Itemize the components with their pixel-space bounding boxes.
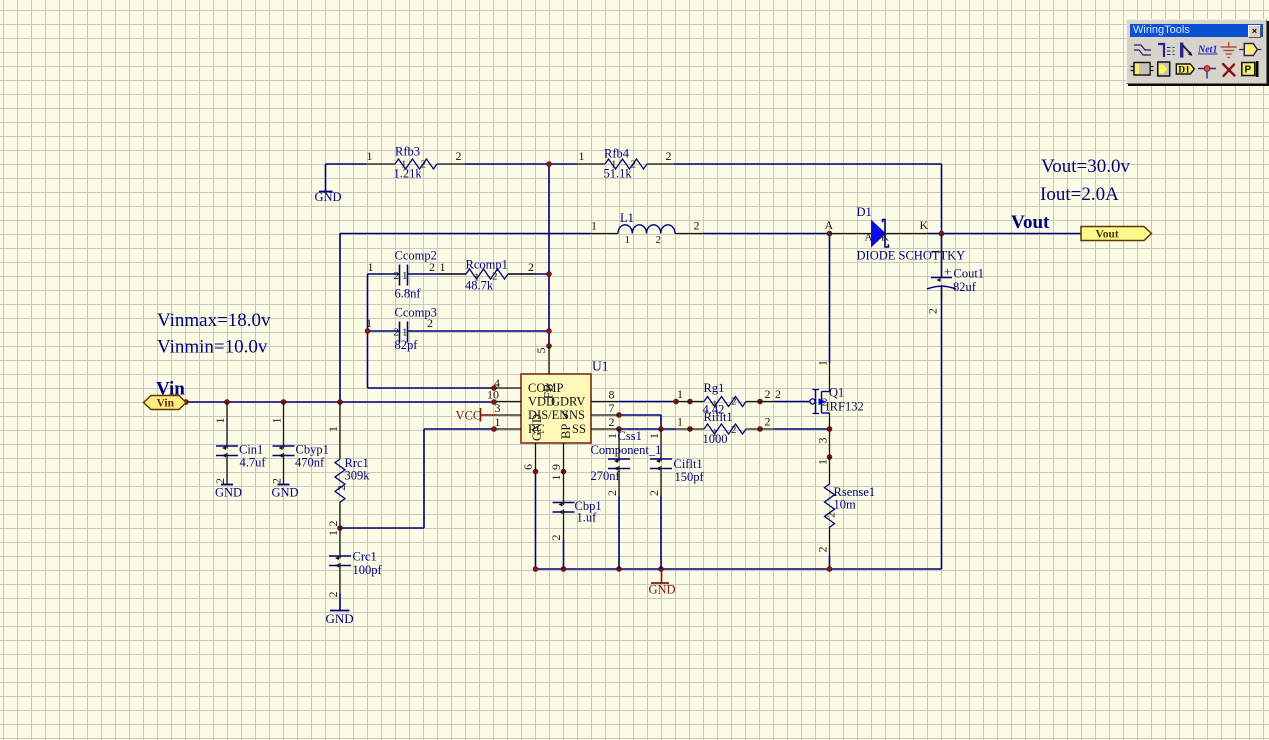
capacitor Crc1 <box>326 528 383 611</box>
wire Cout1 to rail <box>941 288 943 570</box>
node rail Css1 <box>617 567 622 572</box>
wire Rcomp1 to FB vertical <box>508 273 549 275</box>
svg-text:1: 1 <box>367 149 373 163</box>
svg-text:1: 1 <box>368 260 374 274</box>
node pin7 <box>617 413 622 418</box>
icon junction <box>1198 66 1216 79</box>
node Q1 source end <box>827 455 832 460</box>
svg-text:2: 2 <box>394 327 400 339</box>
wire right vertical feedback to K node <box>941 164 943 234</box>
svg-text:Ciflt1: Ciflt1 <box>674 457 703 471</box>
svg-text:2: 2 <box>326 521 340 527</box>
svg-text:DIODE SCHOTTKY: DIODE SCHOTTKY <box>857 249 966 263</box>
wire SW row left <box>340 233 590 235</box>
node COMP top <box>547 272 552 277</box>
svg-text:1: 1 <box>495 415 501 429</box>
svg-text:10: 10 <box>487 388 499 402</box>
wire bottom rail <box>536 568 942 570</box>
svg-text:2: 2 <box>765 415 771 429</box>
svg-text:Riflt1: Riflt1 <box>704 410 733 424</box>
ground Cbyp1 <box>272 485 299 500</box>
svg-text:K: K <box>881 232 889 244</box>
svg-text:150pf: 150pf <box>675 470 705 484</box>
svg-text:P: P <box>1245 65 1252 76</box>
svg-text:2: 2 <box>816 547 830 553</box>
ground Crc1 <box>326 611 354 627</box>
icon wire tool <box>1134 45 1151 55</box>
node pin6 end <box>533 469 538 474</box>
node Vin port <box>184 400 189 405</box>
node Ccomp3 left <box>365 329 370 334</box>
capacitor Cin1 <box>213 402 266 485</box>
svg-text:2: 2 <box>765 387 771 401</box>
wire Rfb4 to right corner <box>674 163 942 165</box>
svg-text:2: 2 <box>822 397 828 409</box>
svg-text:1: 1 <box>402 327 408 339</box>
svg-text:Vout: Vout <box>1096 229 1119 241</box>
diode D1 schottky <box>825 205 966 263</box>
svg-text:10m: 10m <box>834 498 857 512</box>
svg-text:6: 6 <box>521 464 535 470</box>
svg-text:1: 1 <box>326 426 340 432</box>
wire RC to pin1 <box>424 428 495 430</box>
icon PCB rule P <box>1242 61 1259 77</box>
svg-text:2: 2 <box>605 490 619 496</box>
svg-text:1: 1 <box>712 399 718 411</box>
wire pin8 to Rg1 <box>619 401 676 403</box>
svg-text:Vinmin=10.0v: Vinmin=10.0v <box>157 337 268 358</box>
svg-text:1: 1 <box>549 475 563 481</box>
wire L1 to A node <box>703 233 830 235</box>
icon power port ground <box>1221 42 1237 58</box>
node Rg1 pin2 <box>758 399 763 404</box>
toolbar icons <box>1127 38 1266 83</box>
svg-text:U1: U1 <box>592 359 609 374</box>
svg-text:2: 2 <box>731 396 737 408</box>
svg-text:4.7uf: 4.7uf <box>240 456 267 470</box>
node pin2 <box>617 427 622 432</box>
capacitor Css1 <box>591 429 662 569</box>
svg-text:2: 2 <box>528 260 534 274</box>
node rail Cbp1 <box>561 567 566 572</box>
svg-text:309k: 309k <box>345 469 371 483</box>
svg-text:SS: SS <box>572 422 586 436</box>
svg-text:470nf: 470nf <box>295 456 325 470</box>
wire Ccomp3 to FB vertical <box>408 330 550 332</box>
icon no-ERC cross <box>1223 64 1235 76</box>
svg-text:5: 5 <box>534 348 548 354</box>
svg-text:2: 2 <box>336 485 348 491</box>
svg-text:9: 9 <box>549 464 563 470</box>
icon sheet symbol <box>1131 63 1154 76</box>
svg-text:SNS: SNS <box>562 408 585 422</box>
node pin5 end <box>547 344 552 349</box>
wire K to Vout port <box>927 233 1081 235</box>
resistor Rrc1 <box>326 402 370 528</box>
svg-text:GND: GND <box>315 190 342 204</box>
IC U1 pin names <box>528 381 586 441</box>
transistor Q1 IRF132 <box>810 360 864 457</box>
IC U1 body <box>521 359 609 444</box>
ground top-left <box>315 164 342 204</box>
svg-text:1: 1 <box>816 360 830 366</box>
node SNS-SS tie <box>659 427 664 432</box>
node Cin1 top <box>225 400 230 405</box>
svg-text:3: 3 <box>816 438 830 444</box>
power port VCC <box>456 408 497 423</box>
inductor L1 <box>590 211 703 246</box>
node rail Rsense <box>827 567 832 572</box>
wire feedback top from GND to Rfb3 <box>326 163 367 165</box>
svg-text:1: 1 <box>625 234 631 246</box>
svg-text:Css1: Css1 <box>618 429 642 443</box>
node Q1 drain row <box>827 427 832 432</box>
svg-text:1: 1 <box>440 260 446 274</box>
icon bus entry <box>1180 43 1193 58</box>
icon bus tool <box>1158 44 1175 57</box>
ground Cin1 <box>215 485 242 500</box>
svg-text:Cbyp1: Cbyp1 <box>296 443 329 457</box>
svg-text:Net1: Net1 <box>1197 45 1217 56</box>
node Rifl1 pin1 <box>688 427 693 432</box>
IC U1 left pin stubs <box>496 388 521 429</box>
node Rg1 pin1 <box>688 399 693 404</box>
svg-text:2: 2 <box>429 260 435 274</box>
node A <box>827 231 832 236</box>
svg-text:1: 1 <box>647 433 661 439</box>
wire junction to Rfb4 <box>549 163 577 165</box>
wire left vertical Vin to SW <box>339 234 341 403</box>
wire pin6 down to rail <box>535 472 537 570</box>
svg-text:1: 1 <box>401 159 407 171</box>
svg-text:1: 1 <box>579 149 585 163</box>
svg-text:Crc1: Crc1 <box>353 550 377 564</box>
node pin10 <box>492 400 497 405</box>
svg-text:GDRV: GDRV <box>551 395 585 409</box>
resistor Rfb4 <box>577 147 674 181</box>
svg-text:2: 2 <box>549 535 563 541</box>
svg-text:51.1k: 51.1k <box>604 167 633 181</box>
svg-text:2: 2 <box>492 271 498 283</box>
svg-text:7: 7 <box>609 401 615 415</box>
toolbar title bar WiringTools <box>1130 24 1263 37</box>
wire RC node horizontal <box>340 527 424 529</box>
svg-text:Vout=30.0v: Vout=30.0v <box>1041 156 1131 177</box>
svg-text:Cin1: Cin1 <box>239 443 263 457</box>
wire Ccomp3 left stub <box>368 330 400 332</box>
svg-text:IRF132: IRF132 <box>826 400 864 414</box>
IC U1 top pin stub <box>548 346 550 374</box>
svg-text:1: 1 <box>816 459 830 465</box>
svg-text:100pf: 100pf <box>353 563 383 577</box>
svg-text:82uf: 82uf <box>953 280 977 294</box>
svg-text:Vinmax=18.0v: Vinmax=18.0v <box>157 310 271 331</box>
svg-text:1.uf: 1.uf <box>577 511 598 525</box>
svg-text:1: 1 <box>611 159 617 171</box>
IC U1 right pin stubs <box>591 402 619 430</box>
node RC <box>338 526 343 531</box>
wire Ccomp2 left stub <box>368 273 400 275</box>
capacitor Ccomp3 <box>366 306 437 353</box>
svg-text:2: 2 <box>421 159 427 171</box>
wire RC vertical <box>423 429 425 528</box>
svg-text:+: + <box>944 264 951 279</box>
svg-text:A: A <box>825 218 834 232</box>
svg-text:GND: GND <box>326 611 354 626</box>
svg-text:VCC: VCC <box>456 409 482 423</box>
icon port <box>1239 44 1261 56</box>
svg-text:2: 2 <box>647 490 661 496</box>
svg-text:Rfb4: Rfb4 <box>604 147 630 161</box>
port Vout <box>1081 227 1152 241</box>
wire FB vertical from junction to pin5 <box>548 164 550 346</box>
node pin1 <box>492 427 497 432</box>
svg-text:2: 2 <box>609 415 615 429</box>
wire pin7 down to SS row <box>660 415 662 429</box>
wire pin2 to Rifl1 <box>619 428 676 430</box>
ground bottom center <box>649 569 676 597</box>
svg-text:Iout=2.0A: Iout=2.0A <box>1040 184 1119 205</box>
wire pin7 right <box>619 414 661 416</box>
svg-text:GND: GND <box>272 486 299 500</box>
capacitor Ccomp2 <box>368 249 437 301</box>
svg-text:270nf: 270nf <box>591 469 621 483</box>
svg-text:2: 2 <box>731 424 737 436</box>
svg-text:1: 1 <box>677 387 683 401</box>
svg-text:D1: D1 <box>857 205 872 219</box>
wire Ccomp2 to Rcomp1 <box>408 273 467 275</box>
svg-text:2: 2 <box>666 149 672 163</box>
node pin4 <box>492 386 497 391</box>
svg-text:2: 2 <box>631 159 637 171</box>
capacitor Ciflt1 <box>647 429 705 569</box>
svg-text:82pf: 82pf <box>395 338 419 352</box>
resistor Rsense1 <box>816 457 876 555</box>
svg-text:GND: GND <box>215 486 242 500</box>
capacitor Cbyp1 <box>270 402 329 485</box>
svg-text:2: 2 <box>775 387 781 401</box>
svg-text:2: 2 <box>826 512 838 518</box>
svg-text:Rg1: Rg1 <box>704 381 725 395</box>
resistor Riflt1 <box>676 410 774 446</box>
svg-text:2: 2 <box>656 234 662 246</box>
WiringTools floating toolbar panel <box>1126 19 1267 84</box>
svg-text:2: 2 <box>694 219 700 233</box>
svg-text:BP: BP <box>559 424 573 439</box>
svg-text:FB: FB <box>542 384 556 399</box>
svg-text:D1: D1 <box>1178 66 1190 76</box>
svg-text:2: 2 <box>270 478 284 484</box>
node K <box>939 231 944 236</box>
IC U1 bottom pin stubs <box>536 443 564 472</box>
wire Rg1 to Q1 gate <box>774 401 810 403</box>
toolbar close button <box>1248 25 1261 38</box>
svg-text:2: 2 <box>427 316 433 330</box>
IC U1 pin numbers <box>487 348 615 471</box>
wire Q1 drain vertical <box>829 234 831 364</box>
svg-text:A: A <box>865 232 873 244</box>
svg-text:1: 1 <box>677 415 683 429</box>
svg-text:GND: GND <box>649 583 676 597</box>
wire Rifl1 to Q1 source line <box>774 428 830 430</box>
wire comp left vertical <box>367 274 369 388</box>
svg-text:Rcomp1: Rcomp1 <box>466 258 508 272</box>
svg-text:Component_1: Component_1 <box>591 443 662 457</box>
port Vin <box>144 396 187 410</box>
svg-text:1: 1 <box>712 427 718 439</box>
resistor Rcomp1 <box>439 258 535 293</box>
node FB divider <box>547 162 552 167</box>
node Ccomp3 right <box>547 329 552 334</box>
svg-text:1: 1 <box>474 272 480 284</box>
svg-text:Vin: Vin <box>156 379 185 400</box>
svg-text:1: 1 <box>326 530 340 536</box>
svg-text:6.8nf: 6.8nf <box>395 287 422 301</box>
svg-text:2: 2 <box>926 308 940 314</box>
node Rg1 a <box>674 399 679 404</box>
wire right vertical K to Cout1 <box>941 234 943 278</box>
capacitor Cout1 <box>926 234 985 315</box>
node rail pin6 <box>533 567 538 572</box>
capacitor Cbp1 <box>549 472 602 570</box>
svg-text:K: K <box>920 218 929 232</box>
wire Rfb3 to junction <box>465 163 549 165</box>
wire Rsense to rail <box>829 555 831 569</box>
svg-text:1: 1 <box>270 418 284 424</box>
node Rifl1 pin2 <box>758 427 763 432</box>
wire Vin port to U1 pin10 <box>186 401 495 403</box>
svg-text:1: 1 <box>591 219 597 233</box>
node Rrc1 top <box>338 400 343 405</box>
icon net label D1 tag <box>1176 64 1194 76</box>
node pin9 end <box>561 469 566 474</box>
svg-text:1: 1 <box>366 316 372 330</box>
svg-text:Cout1: Cout1 <box>954 267 985 281</box>
svg-text:1: 1 <box>402 270 408 282</box>
svg-text:L1: L1 <box>620 211 634 225</box>
svg-text:Vout: Vout <box>1011 212 1050 233</box>
svg-text:2: 2 <box>394 270 400 282</box>
svg-text:2: 2 <box>213 478 227 484</box>
svg-text:1: 1 <box>605 433 619 439</box>
svg-text:Q1: Q1 <box>829 386 844 400</box>
node Cbyp1 top <box>281 400 286 405</box>
resistor Rfb3 <box>366 145 465 181</box>
svg-text:2: 2 <box>456 149 462 163</box>
node rail Cifl1 <box>659 567 664 572</box>
wire comp bottom to pin4 <box>368 387 496 389</box>
svg-text:1.21k: 1.21k <box>394 167 423 181</box>
svg-text:3: 3 <box>495 401 501 415</box>
svg-text:GND: GND <box>530 414 544 441</box>
svg-text:8: 8 <box>609 388 615 402</box>
svg-text:1: 1 <box>213 418 227 424</box>
svg-text:1: 1 <box>928 249 942 255</box>
svg-text:Rfb3: Rfb3 <box>395 145 420 159</box>
svg-text:2: 2 <box>326 592 340 598</box>
resistor Rg1 <box>676 381 781 417</box>
icon sheet entry <box>1158 62 1170 76</box>
